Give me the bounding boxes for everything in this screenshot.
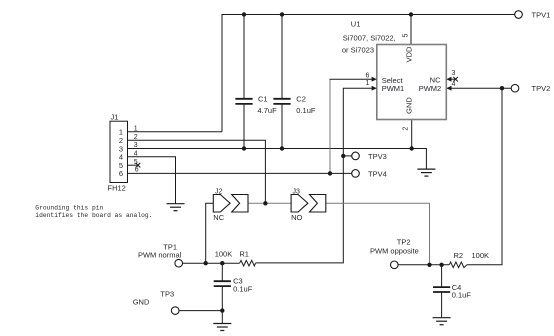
note text — [35, 205, 152, 219]
wire TPV2 drop to R2 — [467, 88, 502, 265]
svg-text:PWM normal: PWM normal — [138, 251, 182, 260]
svg-text:TPV1: TPV1 — [532, 11, 551, 20]
junction top rail VDD — [409, 12, 413, 16]
svg-text:0.1uF: 0.1uF — [296, 106, 316, 115]
junction TP1 J2 drop — [204, 261, 208, 265]
svg-text:3: 3 — [134, 142, 138, 149]
wire C3 bottom to TP3 node and ground — [221, 287, 223, 324]
svg-text:6: 6 — [119, 169, 123, 178]
svg-text:0.1uF: 0.1uF — [233, 284, 253, 293]
svg-text:TPV2: TPV2 — [532, 84, 551, 93]
junction TP3 node — [220, 308, 224, 312]
svg-text:TPV3: TPV3 — [368, 152, 387, 161]
wire J1 pin1 to rail — [128, 131, 223, 133]
wire PWM2 to TPV2 and R2 — [451, 87, 511, 89]
svg-text:3: 3 — [452, 70, 456, 77]
svg-text:2: 2 — [134, 134, 138, 141]
wire C4 top — [441, 265, 443, 287]
svg-text:U1: U1 — [351, 19, 361, 28]
svg-text:TP2: TP2 — [397, 237, 411, 246]
junction pin3 GND pin — [410, 146, 414, 150]
junction TPV4 — [328, 171, 332, 175]
svg-text:GND: GND — [405, 97, 414, 114]
wire GND pin2 — [411, 120, 413, 149]
svg-text:NO: NO — [291, 213, 302, 222]
svg-text:TP3: TP3 — [160, 290, 174, 299]
capacitor C3 — [214, 281, 231, 286]
ground below J1 pin4 — [167, 204, 185, 211]
svg-text:Si7007, Si7022,: Si7007, Si7022, — [343, 33, 396, 42]
wire C1 bottom — [243, 104, 245, 148]
wire U1 pin6 riser — [329, 79, 331, 173]
junction pin3 C1 — [242, 146, 246, 150]
test point TPV4 — [352, 170, 360, 178]
wire TP1 node — [183, 262, 240, 264]
wire C1 top — [243, 15, 245, 99]
ground below U1 — [417, 169, 435, 176]
J1 outside pin numbers — [134, 126, 139, 174]
junction TP1 C3 — [220, 261, 224, 265]
no-connect X on J1 pin5 — [136, 163, 141, 168]
svg-text:R2: R2 — [454, 251, 464, 260]
resistor R2 — [449, 262, 467, 268]
svg-text:PWM1: PWM1 — [382, 84, 405, 93]
junction J2-J3 — [263, 201, 267, 205]
svg-text:100K: 100K — [215, 249, 233, 258]
arrow pin3 — [446, 77, 451, 82]
wire J1 pin4 to ground — [128, 157, 176, 204]
test point TP1 — [175, 259, 183, 267]
connector J1 — [110, 121, 128, 182]
junction TPV2 — [500, 86, 504, 90]
svg-text:5: 5 — [403, 33, 410, 37]
junction TPV3 — [341, 154, 345, 158]
svg-text:Grounding this pin: Grounding this pin — [35, 205, 103, 212]
wire C3 top — [221, 263, 223, 281]
wire J2 input drop — [206, 203, 214, 263]
svg-text:R1: R1 — [239, 249, 249, 258]
capacitor C4 — [433, 287, 450, 292]
arrow pin1 — [372, 86, 377, 91]
test point TPV3 — [352, 152, 360, 160]
junction top rail C2 — [280, 12, 284, 16]
wire TP3 stub — [179, 310, 222, 312]
no-connect X on U1 pin3 — [453, 77, 458, 82]
svg-text:PWM2: PWM2 — [419, 84, 442, 93]
svg-text:J2: J2 — [215, 188, 223, 195]
test point TPV1 — [515, 11, 523, 19]
wire U1 pin6 horizontal — [330, 78, 373, 80]
wire J1 pin6 to TPV4 — [128, 172, 352, 174]
svg-text:identifies the board as analog: identifies the board as analog. — [35, 212, 152, 219]
wire C2 bottom — [281, 104, 283, 148]
capacitor C1 — [235, 99, 252, 104]
svg-text:1: 1 — [366, 80, 370, 87]
svg-text:4: 4 — [452, 81, 456, 88]
wire C2 top — [281, 15, 283, 99]
wire J2 to J3 — [248, 202, 291, 204]
jumper J3 — [291, 195, 326, 213]
svg-text:or Si7023: or Si7023 — [342, 46, 374, 55]
resistor R1 — [240, 260, 256, 266]
svg-text:2: 2 — [403, 127, 410, 131]
wire J1 pin2 to J2-J3 node — [128, 140, 266, 203]
svg-text:4.7uF: 4.7uF — [258, 106, 278, 115]
wire J1 pin3 GND net — [128, 149, 427, 169]
IC U1 box — [377, 45, 447, 120]
wire U1 pin1 net to R1 — [256, 88, 373, 263]
arrow pin4 — [446, 86, 451, 91]
svg-text:5: 5 — [134, 159, 138, 166]
J1 inside pin numbers — [119, 128, 123, 179]
svg-text:J1: J1 — [111, 113, 119, 122]
svg-text:4: 4 — [134, 151, 138, 158]
svg-text:PWM opposite: PWM opposite — [370, 247, 419, 256]
svg-text:C1: C1 — [258, 94, 268, 103]
svg-text:GND: GND — [133, 298, 150, 307]
wire TPV3 stub — [343, 155, 351, 157]
svg-text:NC: NC — [213, 213, 224, 222]
wire VDD pin5 — [410, 15, 412, 45]
svg-text:FH12: FH12 — [108, 184, 126, 193]
svg-text:6: 6 — [366, 72, 370, 79]
svg-text:0.1uF: 0.1uF — [452, 291, 472, 300]
test point TPV2 — [511, 84, 519, 92]
test point TP3 — [171, 307, 179, 315]
svg-text:TPV4: TPV4 — [368, 170, 387, 179]
wire C4 bottom to ground — [441, 292, 443, 317]
svg-text:1: 1 — [134, 126, 138, 133]
wire U1 pin3 NC stub — [451, 78, 456, 80]
svg-text:J3: J3 — [293, 188, 301, 195]
wire TP2 node — [398, 264, 449, 266]
arrow pin6 — [372, 77, 377, 82]
ground below C3 — [213, 324, 231, 331]
test point TP2 — [391, 261, 399, 269]
junction TP2 J3 drop — [427, 263, 431, 267]
ground below C4 — [433, 318, 451, 325]
svg-text:NC: NC — [430, 75, 441, 84]
svg-text:VDD: VDD — [405, 46, 414, 62]
junction TP2 C4 — [439, 263, 443, 267]
capacitor C2 — [273, 99, 290, 104]
jumper J2 — [213, 195, 248, 213]
junction pin3 C2 — [280, 146, 284, 150]
wire top rail — [222, 15, 515, 132]
svg-text:6: 6 — [135, 166, 139, 173]
svg-text:C2: C2 — [296, 94, 306, 103]
wire J1 pin5 stub — [128, 164, 138, 166]
svg-text:100K: 100K — [472, 251, 490, 260]
junction top rail C1 — [242, 12, 246, 16]
wire J3 output to TP2 node — [326, 203, 430, 264]
